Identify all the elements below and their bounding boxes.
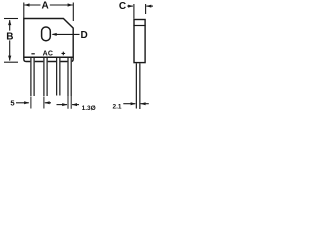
label B: [6, 31, 13, 42]
lead 3 front view: [56, 57, 60, 95]
dimension C arrow pointing left: [146, 5, 153, 8]
label D: [80, 30, 87, 41]
dimension C extension line left: [133, 4, 135, 19]
pitch dimension arrow pointing right: [16, 101, 29, 104]
body outline front view with chamfer and base skirt: [24, 19, 73, 62]
svg-text:2.1: 2.1: [112, 104, 121, 111]
svg-text:B: B: [6, 31, 13, 42]
lead thickness arrow pointing left: [140, 102, 148, 105]
minus polarity mark: [31, 53, 34, 54]
side view cap line: [133, 25, 145, 27]
label C: [119, 1, 126, 12]
svg-text:5: 5: [10, 98, 15, 107]
lead 1 front view: [30, 57, 34, 96]
dimension C arrow pointing right: [127, 5, 133, 8]
dimension B top extension tick: [4, 18, 18, 20]
dimension A arrow line left segment: [24, 3, 40, 6]
lead thickness arrow pointing right: [123, 102, 136, 105]
svg-text:AC: AC: [43, 51, 54, 58]
mounting hole oval: [42, 27, 51, 41]
svg-text:C: C: [119, 1, 126, 12]
svg-text:A: A: [41, 0, 48, 11]
body outline side view: [134, 20, 145, 63]
dimension A extension line right: [72, 3, 74, 22]
lead side view left edge: [135, 63, 137, 108]
dimension B arrow upper segment: [8, 20, 11, 31]
lead 2 front view: [43, 57, 47, 96]
svg-text:1.3Ø: 1.3Ø: [82, 105, 96, 112]
label 1.3 diameter: [82, 105, 96, 112]
pitch dimension extension line at lead 1: [30, 97, 32, 109]
lead diameter extension line right: [70, 96, 72, 109]
dimension A extension line left: [23, 3, 25, 19]
plus polarity mark: [62, 52, 66, 56]
dimension A arrow line right segment: [50, 3, 73, 6]
label A: [41, 0, 48, 11]
lead diameter extension line left: [67, 96, 69, 109]
dimension B arrow lower segment: [8, 40, 11, 60]
body bottom seat line: [24, 56, 73, 58]
lead 4 front view: [67, 57, 71, 96]
label 2.1: [112, 104, 121, 111]
svg-text:D: D: [80, 30, 87, 41]
pitch dimension arrow pointing left: [45, 101, 52, 104]
dimension C extension line right: [145, 4, 147, 14]
label AC: [43, 51, 54, 58]
pitch dimension extension line at lead 2: [43, 97, 45, 109]
lead diameter arrow pointing left: [72, 103, 79, 106]
dimension B bottom extension tick: [4, 61, 18, 63]
lead diameter arrow pointing right: [57, 103, 68, 106]
label 5: [10, 98, 15, 107]
lead side view right edge: [139, 63, 141, 109]
dimension D arrow: [52, 33, 80, 36]
